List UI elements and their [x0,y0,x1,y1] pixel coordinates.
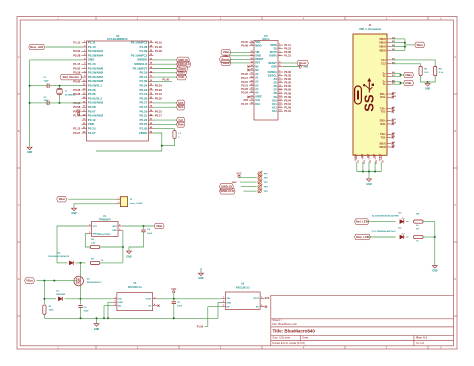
svg-text:P0.28: P0.28 [284,50,291,54]
svg-text:5: 5 [261,297,262,299]
svg-text:NC: NC [148,306,152,308]
svg-text:10uF: 10uF [177,306,183,308]
svg-text:Micro: Micro [263,37,270,41]
svg-text:GND: GND [374,153,376,158]
svg-text:AP2112K-3.3: AP2112K-3.3 [128,286,143,289]
svg-text:1: 1 [89,232,90,234]
svg-text:DMG2305UX-7: DMG2305UX-7 [87,282,103,284]
svg-text:P1.11: P1.11 [73,41,80,45]
svg-text:USB-: USB- [405,81,412,85]
svg-text:GND: GND [367,153,369,158]
svg-text:VBus: VBus [222,61,229,65]
svg-text:3: 3 [115,304,116,306]
svg-text:EN: EN [118,306,121,308]
svg-text:P1.15: P1.15 [73,62,81,66]
svg-text:RX1-: RX1- [380,96,386,99]
svg-text:P0.02: P0.02 [73,66,81,70]
svg-text:VIN: VIN [227,298,231,300]
svg-text:P0.08: P0.08 [284,91,291,95]
svg-text:NC: NC [255,65,259,68]
svg-text:P0.05: P0.05 [284,84,291,88]
svg-text:SHIELD: SHIELD [355,153,357,161]
svg-text:P1.13: P1.13 [284,54,291,58]
svg-text:P1.09: P1.09 [155,49,163,53]
svg-text:P0.24: P0.24 [155,84,163,88]
svg-text:GND: GND [27,151,33,154]
svg-text:Id: 1/1: Id: 1/1 [416,341,424,345]
svg-text:Date:: Date: [302,336,309,340]
svg-text:USB-: USB- [178,75,185,79]
svg-text:P0.13: P0.13 [241,83,248,87]
svg-text:VBat: VBat [59,197,65,201]
svg-text:P1.11: P1.11 [284,43,291,47]
svg-text:P0.20: P0.20 [241,72,248,76]
svg-text:Title: BlueMacro840: Title: BlueMacro840 [273,329,316,334]
svg-text:VCC: VCC [171,288,176,291]
svg-text:E73-2G4M08S1C: E73-2G4M08S1C [107,37,128,41]
svg-text:EN: EN [227,307,230,309]
svg-text:MISO: MISO [255,44,261,47]
svg-text:SWD.CLK: SWD.CLK [220,189,235,193]
svg-text:P1.06: P1.06 [155,45,163,49]
svg-text:CC2: CC2 [381,63,386,66]
svg-text:15pF: 15pF [44,81,50,83]
svg-text:1: 1 [115,297,116,299]
svg-text:VBat: VBat [223,50,229,54]
svg-text:TX1-: TX1- [381,111,386,114]
svg-text:2: 2 [118,202,119,204]
svg-text:P0.12: P0.12 [284,102,291,106]
svg-text:P0.17: P0.17 [241,76,248,80]
svg-text:SS: SS [362,94,377,112]
svg-text:BAT: BAT [113,225,118,228]
svg-text:P0.23: P0.23 [284,47,291,51]
svg-text:P0.29: P0.29 [284,77,291,81]
svg-text:32.768kHz: 32.768kHz [65,95,76,97]
svg-text:VIN: VIN [118,299,122,301]
svg-text:3: 3 [119,229,120,231]
svg-text:GND: GND [366,183,372,186]
svg-text:Row: Row [178,122,185,126]
svg-text:P0.15: P0.15 [155,109,163,113]
svg-text:KiCad E.D.A. kicad (5.0.0): KiCad E.D.A. kicad (5.0.0) [272,341,305,345]
svg-text:GND: GND [271,65,277,68]
svg-text:CUS-2SL/4C-MXSG/JX: CUS-2SL/4C-MXSG/JX [48,255,70,258]
svg-text:D13: D13 [272,110,277,113]
svg-text:2: 2 [223,301,224,303]
svg-text:USB+: USB+ [405,73,413,77]
svg-text:P0.09: P0.09 [241,44,248,48]
svg-text:D: D [18,278,20,281]
svg-text:GND: GND [227,302,232,304]
svg-text:P0.06: P0.06 [284,88,291,92]
svg-text:Blue_LED: Blue_LED [30,45,43,49]
svg-text:P1.13: P1.13 [155,92,163,96]
svg-text:GND: GND [71,212,77,215]
svg-text:VOUT: VOUT [253,298,260,300]
svg-text:USB_C_Receptacle: USB_C_Receptacle [359,28,382,31]
svg-text:NC: NC [255,69,259,72]
svg-text:GND: GND [112,230,117,232]
svg-text:P0.02: P0.02 [284,74,291,78]
svg-text:P0.10: P0.10 [155,41,163,45]
svg-text:10uF: 10uF [84,311,90,313]
svg-text:Red_LED: Red_LED [356,220,368,224]
svg-text:Blue_LED: Blue_LED [356,235,369,239]
svg-text:P1.04: P1.04 [284,109,291,113]
svg-text:Reset: Reset [222,57,229,61]
svg-text:5: 5 [154,297,155,299]
svg-text:P1.06: P1.06 [197,325,204,328]
svg-text:P1.06: P1.06 [284,106,291,110]
svg-text:VCC: VCC [93,226,98,228]
svg-text:P0.07: P0.07 [73,131,81,135]
svg-text:P0.26: P0.26 [73,88,81,92]
svg-text:VBat: VBat [156,224,162,228]
svg-text:P0.03: P0.03 [73,49,81,53]
svg-text:TP4056X4T: TP4056X4T [99,219,112,222]
svg-text:P1.07: P1.07 [88,131,96,135]
svg-text:GND: GND [361,153,363,158]
svg-text:130k: 130k [49,310,55,312]
svg-text:VBUS: VBUS [379,38,386,41]
svg-text:U2: U2 [116,34,120,38]
svg-text:3.3v: 3.3v [255,99,260,102]
svg-text:VDDH: VDDH [139,131,148,135]
svg-text:P0.15: P0.15 [241,80,248,84]
svg-text:Batt_Monitor: Batt_Monitor [63,75,80,79]
svg-text:SHIELD: SHIELD [380,153,382,161]
svg-text:C: C [18,204,20,207]
svg-text:1: 1 [118,198,119,200]
svg-text:P1.09: P1.09 [284,95,291,99]
svg-text:GND: GND [432,270,438,273]
svg-text:GND: GND [425,87,431,90]
svg-text:YC-F1206RH6-A5/TGuY: YC-F1206RH6-A5/TGuY [372,230,397,233]
svg-text:5: 5 [119,225,120,227]
svg-text:3: 3 [223,305,224,307]
svg-text:VBus: VBus [416,43,423,47]
svg-text:File: BlueMacro.sch: File: BlueMacro.sch [272,322,297,326]
svg-text:P0.30: P0.30 [284,70,291,74]
svg-text:P1.07: P1.07 [241,102,248,106]
svg-text:D12: D12 [272,106,277,109]
svg-text:P0.08: P0.08 [73,105,81,109]
svg-text:GND: GND [232,182,237,184]
svg-text:GND: GND [304,66,309,68]
svg-text:RX2-: RX2- [380,123,386,126]
svg-text:GND: GND [126,255,132,258]
svg-text:GND: GND [118,302,123,304]
svg-text:C: C [454,204,456,207]
svg-text:VOUT: VOUT [146,299,153,301]
svg-text:1: 1 [223,297,224,299]
svg-text:MOSI: MOSI [270,44,277,47]
svg-text:P0.24: P0.24 [241,91,248,95]
svg-text:P0.26: P0.26 [284,81,291,85]
svg-text:P0.22: P0.22 [155,88,163,92]
svg-text:P0.04: P0.04 [284,98,291,102]
svg-text:P0.28: P0.28 [73,54,81,58]
svg-text:P1.12: P1.12 [73,127,81,131]
svg-text:D-: D- [383,83,386,86]
svg-text:VCC: VCC [76,110,81,113]
svg-text:D3/SDA: D3/SDA [268,71,277,74]
svg-text:PROG/CHRG: PROG/CHRG [98,234,111,236]
svg-text:D13: D13 [255,103,260,106]
svg-text:GND: GND [255,55,261,58]
svg-text:Size: USLetter: Size: USLetter [272,336,290,340]
svg-text:VBUS: VBUS [379,49,386,52]
svg-text:D: D [454,278,456,281]
svg-text:3V3: 3V3 [243,98,248,102]
svg-text:VCC: VCC [236,172,241,175]
svg-text:Rev: 0.1: Rev: 0.1 [416,336,427,340]
svg-text:CC1: CC1 [381,59,386,62]
svg-text:TX2-: TX2- [381,136,386,139]
svg-text:VBUS: VBUS [379,42,386,45]
svg-text:RST: RST [255,62,260,65]
svg-text:P0.20: P0.20 [155,97,163,101]
svg-text:SDA: SDA [178,105,184,109]
svg-text:VBUS: VBUS [379,46,386,49]
svg-text:15pF: 15pF [44,100,50,102]
svg-text:10uF: 10uF [147,233,153,235]
svg-text:3V3: 3V3 [265,297,270,300]
svg-text:GND: GND [198,277,204,280]
svg-text:AP2112K-3.3: AP2112K-3.3 [236,286,251,289]
svg-text:VBus: VBus [26,279,33,283]
svg-text:SBU2: SBU2 [379,146,386,149]
svg-text:D6/RX: D6/RX [269,55,277,58]
svg-text:GND: GND [94,328,100,331]
svg-text:2: 2 [115,301,116,303]
svg-text:P0.17: P0.17 [155,114,163,118]
svg-text:D10: D10 [272,99,277,102]
svg-text:D-: D- [383,75,386,78]
svg-text:B5819W: B5819W [57,294,66,296]
svg-text:16-213SURC/S530-A6/TR8: 16-213SURC/S530-A6/TR8 [372,215,400,218]
svg-text:NC: NC [256,307,260,309]
svg-text:Conn_01x02: Conn_01x02 [130,203,144,205]
svg-text:P0.22: P0.22 [241,87,248,91]
